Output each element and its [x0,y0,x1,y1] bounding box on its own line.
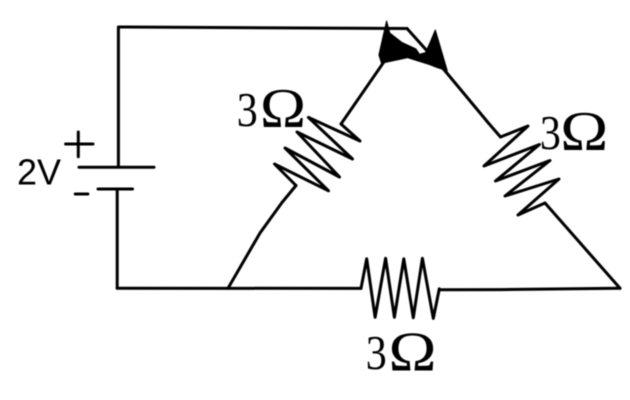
battery V1 positive plate (long) [79,166,154,169]
svg-text:3: 3 [540,105,561,160]
svg-text:Ω: Ω [560,101,608,163]
resistor R3 bottom zigzag body [361,258,439,318]
plus sign of battery [66,132,93,157]
wire: battery positive terminal up to top-left corner [117,28,120,168]
resistor R1 left-side zigzag body [275,117,361,190]
wire: upper lead of resistor R2 from arrow tip [446,72,501,137]
wire: lower lead of resistor R1 from bottom-left vertex node [228,186,296,289]
svg-text:3: 3 [237,82,258,137]
battery V1 negative plate (short) [98,188,133,191]
wire: R3 right lead to bottom-right vertex [439,288,620,290]
svg-text:3: 3 [366,325,387,380]
svg-text:Ω: Ω [389,322,437,384]
wire: bottom horizontal from bottom-left corner to resistor R3 left lead [117,287,361,290]
wire: battery negative terminal down to bottom-left corner [116,189,119,288]
wire: apex down-right segment to arrow tail [407,29,446,73]
wire: upper lead of resistor R1 toward apex (under arrow) [341,58,387,124]
minus sign of battery [75,193,88,196]
wire: lower lead of resistor R2 to bottom-right vertex [545,203,620,288]
svg-text:2V: 2V [17,152,61,193]
svg-text:Ω: Ω [260,78,306,140]
wire: top horizontal from top-left corner to apex node [118,27,407,29]
current arrow 1 (down-left branch at apex) [379,21,419,63]
resistor R2 right-side zigzag body [484,126,559,215]
current arrow 2 (down-right branch at apex) [408,30,448,71]
